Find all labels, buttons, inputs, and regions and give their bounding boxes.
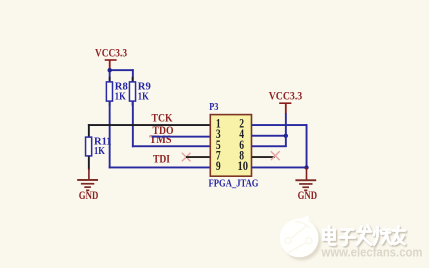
connector P3 body [210, 115, 251, 177]
no-connect X (pin 8, right) [271, 151, 280, 160]
pin 7 stub [186, 156, 210, 158]
ground symbol (right) [295, 179, 316, 191]
pin stub R8 bottom [109, 101, 111, 106]
svg-text:P3: P3 [209, 101, 219, 113]
svg-text:1K: 1K [138, 90, 149, 102]
pin stub R9 bottom [132, 101, 134, 106]
junction (VCC right node) [284, 134, 288, 138]
svg-text:FPGA_JTAG: FPGA_JTAG [209, 178, 259, 189]
resistor R8 [106, 82, 112, 101]
svg-text:10: 10 [238, 159, 249, 173]
wire right vertical (pin 2 down to GND node) [306, 124, 308, 168]
wire TDO horizontal to pin 3 [152, 136, 211, 138]
svg-text:9: 9 [216, 159, 221, 173]
烧 [374, 227, 392, 245]
svg-text:TMS: TMS [150, 132, 172, 146]
wire VCC to R9 top (vertical) [132, 69, 134, 81]
wire pin 6 to VCC vertical [252, 145, 287, 147]
wire TMS horizontal to pin 5 [132, 145, 210, 147]
友 [392, 227, 406, 245]
pin stub R9 top [132, 77, 134, 82]
watermark logo (elecfans) [280, 215, 321, 260]
wire pin 2 to right corner [252, 124, 308, 126]
svg-text:TDI: TDI [153, 151, 170, 165]
pin stub R8 top [109, 77, 111, 82]
power symbol VCC3.3 (right) [279, 102, 291, 113]
wire R8 to TDI (vertical) [109, 101, 111, 169]
no-connect X (pin 7, left) [182, 153, 191, 162]
wire VCC right vertical [285, 113, 287, 147]
resistor R9 [129, 82, 135, 101]
svg-text:GND: GND [79, 190, 99, 202]
wire R9 to TMS (vertical) [132, 101, 134, 147]
wire pin 10 to GND node [252, 167, 308, 169]
pin 8 stub [252, 156, 275, 158]
wire TDI horizontal to pin 9 [109, 167, 211, 169]
wire pin 4 to VCC node [252, 135, 287, 137]
wire TCK horizontal to pin 1 (R11 top corner) [88, 124, 210, 126]
发 [357, 226, 371, 245]
resistor R11 [86, 137, 92, 156]
svg-text:1K: 1K [115, 90, 126, 102]
svg-text:VCC3.3: VCC3.3 [269, 89, 303, 103]
svg-text:GND: GND [298, 190, 318, 202]
wire R11 bottom to GND [88, 156, 90, 170]
ground symbol (left) [77, 179, 98, 191]
junction (GND right node) [304, 165, 308, 169]
子 [340, 230, 356, 245]
watermark text 电子发烧友 [324, 226, 406, 245]
power symbol VCC3.3 (left) [105, 59, 117, 70]
wire VCC to R9 top (horizontal) [109, 69, 134, 71]
wire VCC to R8 top [109, 69, 111, 81]
svg-text:1K: 1K [94, 145, 105, 157]
电 [324, 226, 336, 245]
svg-text:www.elecfans.com: www.elecfans.com [321, 246, 423, 260]
ground stub (left, red) [88, 169, 90, 180]
ground stub (right, red) [306, 168, 308, 180]
wire TCK down to R11 [88, 124, 90, 137]
svg-text:VCC3.3: VCC3.3 [95, 46, 127, 60]
junction (left VCC node) [108, 68, 112, 72]
